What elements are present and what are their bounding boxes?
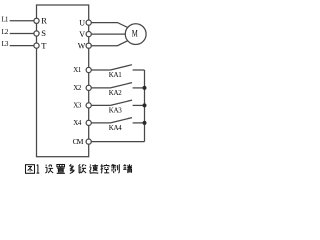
terminal U xyxy=(86,20,91,25)
svg-text:L1: L1 xyxy=(2,16,9,23)
svg-text:KA4: KA4 xyxy=(109,124,123,132)
terminal X2 xyxy=(86,85,91,90)
wire CM xyxy=(91,141,144,143)
svg-text:X3: X3 xyxy=(73,102,82,110)
contact KA2 xyxy=(91,83,144,88)
svg-text:KA1: KA1 xyxy=(109,71,123,79)
caption char 速 xyxy=(89,164,98,173)
contact KA4 xyxy=(91,118,144,123)
wire V to motor xyxy=(91,33,125,35)
wire U to motor xyxy=(91,23,128,28)
terminal T xyxy=(34,43,39,48)
terminal R xyxy=(34,18,39,23)
terminal X4 xyxy=(86,120,91,125)
terminal X1 xyxy=(86,67,91,72)
contact KA1 xyxy=(91,65,144,70)
wire L2 xyxy=(10,33,34,35)
svg-text:S: S xyxy=(41,28,46,38)
terminal CM xyxy=(86,139,91,144)
svg-text:X2: X2 xyxy=(73,84,82,92)
wire common bus xyxy=(144,70,146,142)
junction node X4 bus xyxy=(143,121,147,125)
svg-text:M: M xyxy=(132,28,139,38)
terminal X3 xyxy=(86,103,91,108)
svg-text:W: W xyxy=(78,41,86,50)
caption char 置 xyxy=(57,165,65,174)
caption: 图1 设置多段速控制端 drawn as vector strokes xyxy=(26,164,133,173)
wire L1 xyxy=(10,20,34,22)
svg-text:R: R xyxy=(41,16,47,26)
wire W to motor xyxy=(91,41,128,46)
svg-text:KA3: KA3 xyxy=(109,106,123,114)
svg-text:U: U xyxy=(79,18,85,27)
caption char 1 xyxy=(37,165,40,174)
caption char 控 xyxy=(101,164,110,173)
svg-text:X4: X4 xyxy=(73,119,82,127)
terminal S xyxy=(34,31,39,36)
inverter box xyxy=(37,5,89,157)
motor M xyxy=(125,24,146,45)
terminal V xyxy=(86,31,91,36)
caption char 多 xyxy=(69,164,74,173)
svg-text:CM: CM xyxy=(73,137,84,146)
caption char 设 xyxy=(45,165,53,173)
caption char 段 xyxy=(79,164,87,173)
junction node X3 bus xyxy=(143,103,147,107)
svg-text:KA2: KA2 xyxy=(109,89,123,97)
svg-text:T: T xyxy=(41,40,47,50)
caption char 图 xyxy=(26,165,35,174)
caption char 端 xyxy=(123,164,132,173)
terminal W xyxy=(86,43,91,48)
svg-text:X1: X1 xyxy=(73,66,82,74)
contact KA3 xyxy=(91,100,144,105)
svg-text:V: V xyxy=(79,30,85,39)
junction node X2 bus xyxy=(143,86,147,90)
caption char 制 xyxy=(111,164,119,173)
wire L3 xyxy=(10,45,34,47)
